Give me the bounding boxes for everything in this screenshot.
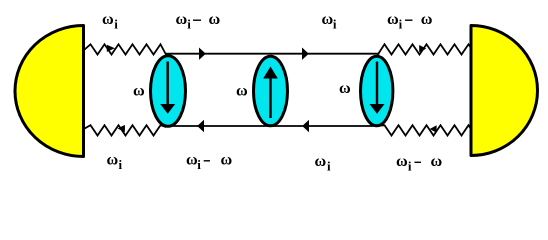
arrowhead bottom line left (points left) <box>197 120 204 132</box>
vertex bubble right (cyan ellipse, down arrow) <box>361 56 393 126</box>
svg-text:ω: ω <box>339 80 351 97</box>
photon zigzag top-right <box>378 44 472 55</box>
svg-text:ω: ω <box>176 11 188 28</box>
svg-text:ω: ω <box>315 153 327 170</box>
svg-text:ω: ω <box>186 151 198 168</box>
arrowhead on bottom-left zigzag (points left) <box>118 125 125 132</box>
photon zigzag bottom-left <box>84 125 166 135</box>
up arrow in middle bubble <box>269 79 271 119</box>
svg-text:i: i <box>408 158 412 173</box>
svg-text:ω: ω <box>209 11 221 28</box>
photon zigzag bottom-right <box>378 125 472 135</box>
arrowhead on top-left zigzag (points right) <box>107 45 115 52</box>
right mirror (yellow half-disc) <box>471 26 538 156</box>
svg-text:ω: ω <box>133 82 145 99</box>
svg-text:i: i <box>399 16 403 31</box>
svg-text:ω: ω <box>221 151 233 168</box>
wire: top straight propagator line <box>166 53 380 55</box>
wire: bottom straight propagator line <box>166 125 380 127</box>
left mirror (yellow half-disc) <box>15 26 84 157</box>
photon zigzag top-left <box>84 44 167 55</box>
down arrow in right bubble <box>376 62 378 105</box>
svg-text:i: i <box>197 157 201 172</box>
svg-text:ω: ω <box>107 151 119 168</box>
svg-text:i: i <box>114 16 118 31</box>
svg-text:ω: ω <box>387 11 399 28</box>
arrowhead on bottom-right zigzag (points left) <box>430 125 437 132</box>
svg-text:ω: ω <box>102 11 114 28</box>
arrowhead bottom line right (points left) <box>302 120 309 132</box>
svg-text:ω: ω <box>236 83 248 100</box>
svg-text:i: i <box>187 16 191 31</box>
svg-text:i: i <box>327 158 331 173</box>
svg-text:ω: ω <box>322 11 334 28</box>
svg-text:ω: ω <box>396 153 408 170</box>
vertex bubble left (cyan ellipse, down arrow) <box>151 56 186 127</box>
arrowhead top line right (points right) <box>302 48 309 60</box>
arrowhead on top-right zigzag (points right) <box>419 45 426 52</box>
svg-text:ω: ω <box>421 11 433 28</box>
svg-text:ω: ω <box>431 153 443 170</box>
svg-text:i: i <box>119 157 123 172</box>
arrowhead top line left (points right) <box>199 48 206 60</box>
vertex bubble middle (cyan ellipse, up arrow) <box>254 56 288 126</box>
svg-text:i: i <box>333 16 337 31</box>
down arrow in left bubble <box>166 62 168 105</box>
